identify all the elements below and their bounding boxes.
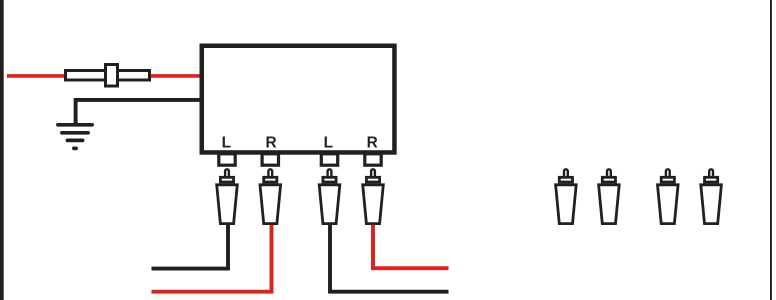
RCA jack socket R (output 2): [262, 154, 278, 165]
RCA jack socket L (output 3): [321, 154, 337, 165]
svg-text:R: R: [367, 135, 378, 152]
svg-text:L: L: [324, 135, 333, 152]
RCA plug P5 (loose, far group): [556, 169, 577, 223]
page left border bar: [0, 0, 4, 300]
fuse F1 (in-line fuse holder on power lead): [66, 65, 150, 87]
wire: red +12V power lead from left edge into amplifier: [7, 74, 205, 78]
wire: black signal lead from plug 1 (front left): [152, 215, 229, 269]
svg-text:R: R: [265, 135, 276, 152]
RCA plug P6 (loose, far group): [599, 169, 620, 223]
RCA jack socket R (output 4): [365, 154, 381, 165]
ground: [58, 125, 92, 149]
wire: black ground lead from amplifier down to ground: [76, 100, 205, 125]
wire: red signal lead from plug 2 (front right): [152, 215, 272, 292]
RCA plug P1 on output L: [217, 169, 238, 223]
RCA plug P2 on output R: [260, 169, 281, 223]
amplifier box U1: [202, 46, 395, 153]
RCA plug P3 on output L: [319, 169, 340, 223]
svg-text:L: L: [222, 135, 231, 152]
wire: red signal lead from plug 4 (rear right): [373, 215, 449, 268]
page right border line: [770, 0, 772, 300]
wire: black signal lead from plug 3 (rear left): [330, 215, 449, 292]
RCA plug P8 (loose, far group): [701, 169, 722, 223]
RCA jack socket L (output 1): [219, 154, 235, 165]
RCA plug P4 on output R: [363, 169, 384, 223]
RCA plug P7 (loose, far group): [658, 169, 679, 223]
